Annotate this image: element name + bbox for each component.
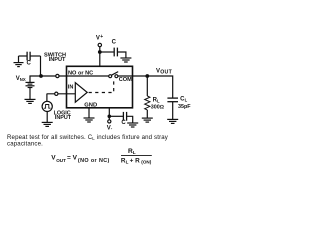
wire (internal NO/NC to switch) [67, 75, 109, 77]
wire (cap to corner) [30, 55, 40, 57]
wire (corner down to battery) [29, 76, 31, 83]
svg-text:IN: IN [68, 84, 74, 90]
wire (V- pin down) [108, 108, 110, 120]
wire (logic input corner) [46, 94, 48, 102]
svg-text:L: L [185, 98, 188, 103]
svg-text:-: - [111, 126, 113, 131]
ground (logic input) [42, 122, 53, 126]
ground (V- cap) [127, 123, 138, 127]
junction (VOUT node) [145, 74, 149, 78]
wire (CL to ground) [172, 102, 174, 120]
wire (VOUT to CL corner) [147, 76, 172, 98]
capacitor C (V+ bypass) [114, 48, 117, 57]
op-amp driver buffer [75, 83, 87, 103]
svg-text:L: L [126, 160, 129, 165]
label V- [107, 125, 113, 131]
formula VOUT = V(NO or NC) x RL/(RL+RON) [51, 148, 151, 165]
label CL [180, 97, 188, 103]
node V+ [96, 34, 103, 41]
svg-text:300Ω: 300Ω [151, 105, 164, 111]
wire (battery to ground) [29, 88, 31, 100]
svg-text:capacitance.: capacitance. [7, 141, 43, 148]
resistor RL [145, 96, 150, 110]
ground (VNX) [25, 99, 36, 103]
wire (NO/NC main line) [30, 75, 67, 77]
svg-text:C: C [112, 39, 117, 45]
IC U1 analog switch box [67, 66, 133, 108]
svg-text:(NO or NC): (NO or NC) [78, 158, 110, 164]
wire (switch to COM pin and out) [118, 75, 147, 77]
label LOGIC INPUT [54, 110, 72, 121]
svg-text:NX: NX [20, 77, 26, 82]
svg-text:GND: GND [84, 103, 97, 109]
label SWITCH INPUT [44, 52, 66, 63]
junction (cap branch on NO/NC line) [39, 74, 43, 78]
wire (IN pin line) [47, 93, 76, 95]
wire (RL branch) [146, 76, 148, 96]
svg-text:OUT: OUT [160, 70, 172, 76]
node (open terminal on IN line) [55, 92, 58, 95]
svg-text:L: L [157, 99, 160, 104]
capacitor C (switch input) [27, 52, 30, 61]
label VNX [16, 76, 26, 82]
ground (switch-input cap) [14, 63, 24, 67]
wire (V- to cap) [109, 115, 123, 117]
ground (CL) [167, 119, 178, 123]
node (V+ open terminal) [98, 43, 101, 46]
battery VNX [26, 82, 35, 87]
source pulse generator [42, 101, 52, 111]
svg-text:= V: = V [67, 154, 78, 161]
ground (RL) [142, 118, 153, 122]
svg-text:OUT: OUT [56, 158, 66, 163]
ground (V+ cap) [120, 58, 131, 62]
junction (V+ cap tap) [98, 50, 102, 54]
wire (ground stem to cap C) [18, 56, 20, 63]
wire (to V+ cap) [100, 51, 114, 53]
pulse waveform glyph [44, 105, 51, 109]
svg-text:COM: COM [119, 77, 132, 83]
capacitor CL [167, 98, 178, 102]
note text [7, 134, 169, 148]
svg-text:INPUT: INPUT [49, 57, 66, 63]
svg-text:+ R: + R [130, 157, 141, 164]
svg-text:C: C [121, 120, 126, 126]
wire (V- cap to ground) [127, 116, 133, 123]
switch S1 [109, 72, 119, 78]
svg-text:35pF: 35pF [178, 104, 191, 110]
wire (down to NO/NC line) [40, 56, 42, 76]
wire (fraction bar) [121, 154, 152, 156]
wire (RL to ground) [146, 110, 148, 118]
junction (V- cap tap) [108, 115, 112, 119]
wire (to cap left plate) [19, 55, 27, 57]
svg-text:INPUT: INPUT [55, 115, 72, 121]
ground (GND pin) [84, 118, 95, 122]
wire (pulse source to ground) [46, 112, 48, 123]
node VOUT [156, 68, 173, 75]
svg-text:(ON): (ON) [141, 160, 151, 165]
svg-text:+: + [100, 34, 103, 40]
capacitor C (V- bypass) [123, 112, 126, 121]
label RL [153, 98, 160, 104]
wire (V+ into box top) [99, 47, 101, 67]
node (open terminal on NO/NC line) [56, 74, 59, 77]
wire (dashed control line) [89, 78, 114, 92]
svg-text:C: C [27, 60, 32, 66]
node (V- open terminal) [108, 120, 111, 123]
wire (GND pin to ground) [88, 108, 90, 118]
wire (V+ cap to ground) [117, 52, 126, 58]
